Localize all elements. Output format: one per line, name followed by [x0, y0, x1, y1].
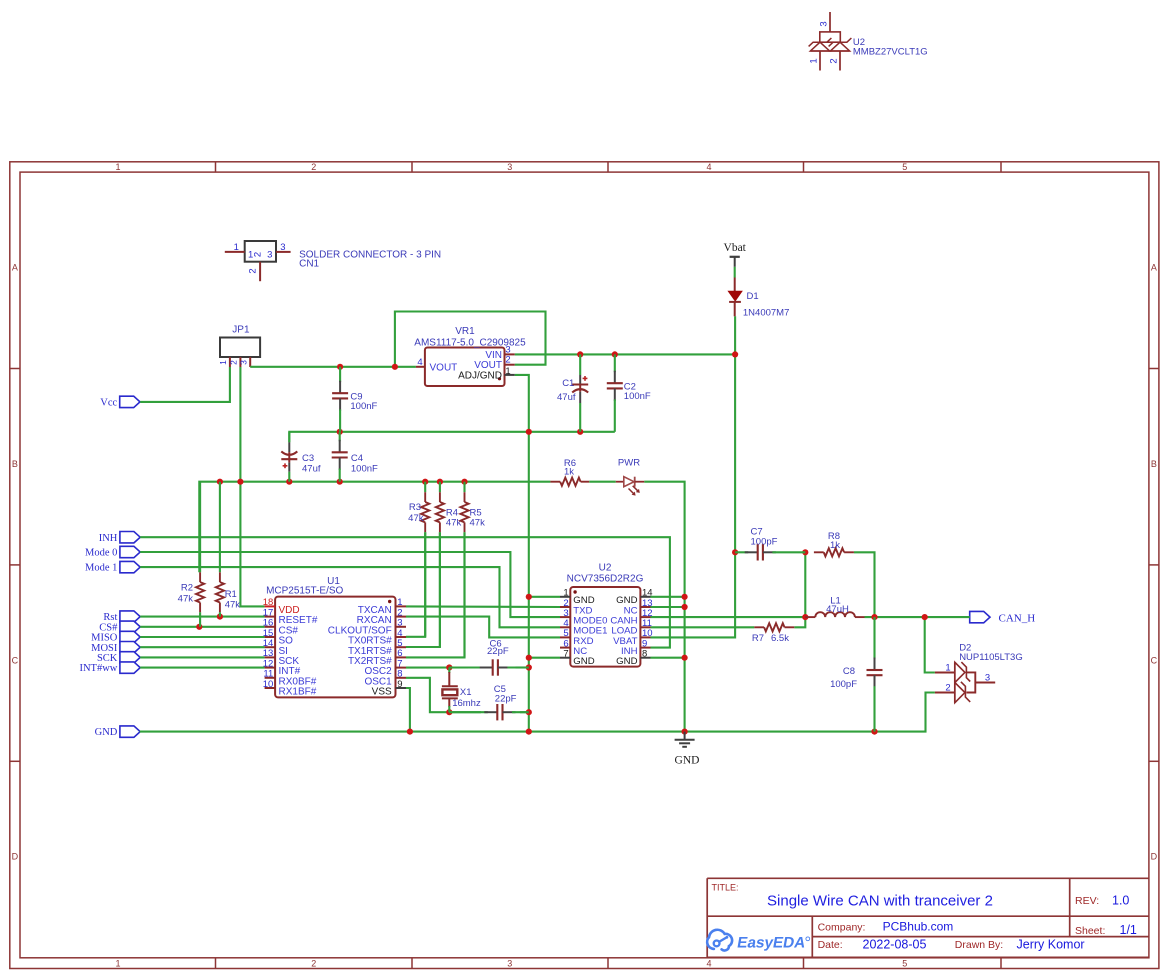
svg-text:3: 3: [507, 959, 512, 969]
label PWR: [618, 457, 640, 468]
pin number 3 (CN1 outside): [280, 242, 285, 253]
wire U2 pin14 to GND vertical: [651, 596, 685, 598]
pin number 13 (U1 left): [263, 648, 274, 659]
wire TXCAN to U2 TXD: [406, 605, 560, 608]
capacitor C3 symbol (polarized): [281, 432, 297, 482]
pin number 11 (U2 right): [642, 618, 652, 629]
label C6: [490, 639, 502, 650]
svg-text:47uH: 47uH: [826, 604, 849, 615]
junction VSS on GND rail: [407, 729, 413, 735]
label 47k (R2): [178, 594, 194, 605]
pin name RXCAN (U1): [357, 615, 392, 626]
svg-text:REV:: REV:: [1075, 895, 1099, 907]
TVS diode D2 symbol: [935, 662, 995, 703]
svg-text:100nF: 100nF: [351, 464, 378, 475]
pin name INT# (U1): [279, 666, 301, 677]
wire JP1 pin2 down to VDD rail and U1 pin18: [240, 367, 264, 606]
ground symbol GND: [675, 732, 695, 747]
pin number 3 (VR1): [505, 344, 510, 355]
label 16mhz (X1): [452, 698, 481, 709]
svg-text:Drawn By:: Drawn By:: [955, 939, 1003, 951]
pin name NC (U2 right): [624, 605, 638, 616]
wire VBAT vertical to U2 pin10: [651, 552, 736, 637]
svg-text:47k: 47k: [408, 513, 424, 524]
svg-text:3: 3: [819, 21, 830, 26]
svg-text:B: B: [12, 459, 18, 469]
pin name LOAD (U2 right): [611, 626, 637, 637]
port Mode 1: [85, 561, 140, 573]
svg-text:16mhz: 16mhz: [452, 698, 481, 709]
pin name OSC2 (U1): [364, 666, 392, 677]
crystal X1 symbol: [442, 668, 458, 713]
svg-text:GND: GND: [95, 727, 118, 738]
svg-text:4: 4: [417, 357, 422, 368]
svg-text:Company:: Company:: [818, 922, 866, 934]
pin name RXD (U2 left): [573, 636, 593, 647]
connector JP1 symbol: [220, 338, 260, 368]
pin number 12 (U2 right): [642, 608, 653, 619]
svg-text:Jerry Komor: Jerry Komor: [1017, 938, 1085, 952]
capacitor C8 symbol: [867, 617, 883, 732]
pin number 2 (U2 left): [563, 598, 568, 609]
wire MOSI to U1 SI: [140, 646, 264, 648]
svg-text:Vcc: Vcc: [100, 398, 117, 409]
wire VIN line: [515, 353, 735, 355]
svg-text:2: 2: [311, 959, 316, 969]
connector CN1 symbol: [225, 241, 291, 281]
svg-text:D: D: [1151, 852, 1158, 862]
wire C6 right to GND vertical: [515, 666, 528, 668]
svg-text:C1: C1: [562, 378, 574, 389]
label L1: [830, 595, 841, 606]
svg-text:GND: GND: [616, 656, 637, 667]
pin number 9 (U1 right): [397, 679, 402, 690]
resistor R7 symbol: [754, 623, 794, 631]
pin number 1 (U1 right): [397, 597, 402, 608]
junction L1 right C8 node: [871, 614, 877, 620]
svg-text:3: 3: [267, 250, 272, 261]
svg-text:VR1: VR1: [455, 326, 475, 337]
pin number 2 (VR1): [505, 355, 510, 366]
label D1: [747, 291, 759, 302]
junction VOUT loop on 5V line: [392, 364, 398, 370]
svg-text:47uf: 47uf: [302, 464, 321, 475]
wire U2 pin7 to GND vertical: [529, 657, 560, 659]
svg-text:Single Wire CAN with tranceive: Single Wire CAN with tranceiver 2: [767, 893, 993, 910]
junction GND vert C5 line: [526, 709, 532, 715]
label 1k (R8): [830, 540, 840, 551]
wire Vcc to JP1 pin1: [140, 367, 230, 402]
pin number 2 (D2): [945, 683, 950, 694]
title block grid lines: [707, 878, 1149, 958]
label 1k (R6): [564, 467, 574, 478]
label 22pF (C5): [495, 694, 517, 705]
wire INT#ww to U1 INT#: [140, 667, 264, 669]
svg-text:EasyEDA: EasyEDA: [736, 934, 807, 951]
svg-text:RX1BF#: RX1BF#: [279, 687, 317, 698]
label NCV7356D2R2G: [567, 574, 644, 585]
label 47uf (C3): [302, 464, 321, 475]
svg-text:2: 2: [253, 252, 264, 257]
capacitor C9 symbol: [332, 367, 348, 432]
label C5: [494, 684, 506, 695]
svg-text:C: C: [1151, 655, 1158, 665]
svg-text:PWR: PWR: [618, 457, 640, 468]
svg-text:CAN_H: CAN_H: [999, 612, 1036, 624]
capacitor C7 symbol: [735, 544, 805, 560]
junction C7 left on VBAT vertical: [732, 549, 738, 555]
wire R8 to L1 output: [854, 552, 875, 617]
label AMS1117-5.0_C2909825: [414, 338, 526, 349]
pin number 3 (U2 zener): [819, 21, 830, 26]
pin name TX1RTS# (U1): [348, 646, 392, 657]
label U2 (transceiver): [599, 563, 612, 574]
svg-text:9: 9: [397, 679, 402, 690]
port Vcc: [100, 396, 140, 408]
pin number 15 (U1 left): [263, 628, 274, 639]
junction GND vert2 U2 pin14: [682, 594, 688, 600]
pin name CANH (U2 right): [610, 616, 637, 627]
svg-text:4: 4: [706, 959, 711, 969]
wire GND rail y432: [289, 432, 615, 443]
svg-text:100pF: 100pF: [830, 679, 857, 690]
port Rst: [103, 611, 140, 623]
svg-text:D: D: [12, 852, 19, 862]
junction X1 bottom on C5 line: [446, 709, 452, 715]
pin number 2 (U2 zener): [829, 58, 840, 63]
pin number 5 (U2 left): [563, 628, 568, 639]
junction C3 bottom on VDD rail: [286, 479, 292, 485]
wire LED cathode to GND vertical: [644, 482, 684, 732]
label 47k (R5): [470, 517, 486, 528]
svg-text:3: 3: [507, 162, 512, 172]
resistor R8 symbol: [814, 548, 854, 556]
pin number 9 (U2 right): [642, 638, 647, 649]
svg-text:TITLE:: TITLE:: [712, 883, 739, 893]
wire INH line: [140, 537, 670, 647]
svg-text:Vbat: Vbat: [724, 242, 747, 254]
label C8: [843, 666, 855, 677]
pin number 4 (VR1): [417, 357, 422, 368]
pin name TX0RTS# (U1): [348, 636, 392, 647]
svg-text:D1: D1: [747, 291, 759, 302]
wire SCK to U1 SCK: [140, 656, 264, 658]
pin number 1 (VR1): [505, 366, 510, 377]
pin number 10 (U1 left): [263, 679, 274, 690]
svg-text:22pF: 22pF: [495, 694, 517, 705]
pin number 3 (CN1 inside): [267, 250, 272, 261]
pin number 1 (U2 left): [563, 588, 568, 599]
label R5: [470, 508, 482, 519]
wire U2 pin11 LOAD to R7: [651, 626, 755, 628]
junction GND vert2 U2 pin13: [682, 604, 688, 610]
wire CS# to U1 CS#: [140, 626, 264, 628]
pin name RX1BF# (U1): [279, 687, 317, 698]
wire GND vertical x529 (ADJ to GND rail): [515, 375, 529, 732]
pin number 14 (U1 left): [263, 638, 274, 649]
pin number 2 (CN1 inside): [253, 252, 264, 257]
wire TX0RTS# to R3: [406, 532, 425, 637]
wire RXCAN to U2 RXD: [406, 617, 560, 638]
junction R3 top on VDD rail: [422, 479, 428, 485]
svg-text:NUP1105LT3G: NUP1105LT3G: [959, 652, 1023, 663]
IC U1 MCP2515T-E/SO box and pins: [265, 597, 406, 698]
capacitor C6 symbol: [449, 659, 529, 675]
EasyEDA logo: [707, 930, 810, 952]
pin name MODE1 (U2 left): [573, 626, 607, 637]
pin name VOUT (VR1 left): [430, 362, 458, 373]
junction C7/R8 node: [802, 549, 808, 555]
wire VDD rail y482: [199, 482, 550, 573]
label R3: [409, 502, 421, 513]
pin name GND (U2 left): [573, 595, 594, 606]
svg-text:A: A: [12, 263, 18, 273]
label 100nF (C9): [350, 401, 377, 412]
pin name CS# (U1): [279, 625, 299, 636]
svg-text:Sheet:: Sheet:: [1075, 925, 1105, 937]
pin number 3 (U2 left): [563, 608, 568, 619]
svg-text:1.0: 1.0: [1112, 894, 1129, 908]
svg-text:100nF: 100nF: [624, 391, 651, 402]
svg-text:PCBhub.com: PCBhub.com: [883, 920, 954, 934]
pin number 3 (D2): [985, 673, 990, 684]
wire Mode 0 line: [140, 552, 560, 617]
svg-text:4: 4: [706, 162, 711, 172]
svg-text:2022-08-05: 2022-08-05: [863, 938, 927, 952]
pin number 2 (U1 right): [397, 607, 402, 618]
Sheet label: [1075, 925, 1105, 937]
svg-text:1: 1: [809, 58, 820, 63]
Company value PCBhub.com: [883, 920, 954, 934]
label 6.5k (R7): [771, 633, 789, 644]
port CAN_H: [970, 611, 1036, 624]
capacitor C5 symbol: [449, 704, 529, 720]
svg-text:5: 5: [902, 162, 907, 172]
title block TITLE label: [712, 883, 739, 893]
port MOSI: [91, 642, 140, 654]
wire OSC1 jog to C5 line: [406, 678, 481, 712]
label C9: [350, 392, 362, 403]
wire U2 pin1 to GND vertical: [529, 596, 560, 598]
svg-text:GND: GND: [675, 755, 700, 767]
label C7: [751, 527, 763, 538]
port GND (left): [95, 726, 141, 738]
pin number 3 (JP1): [238, 360, 248, 365]
svg-text:CN1: CN1: [299, 259, 319, 270]
svg-text:2: 2: [829, 58, 840, 63]
junction GND vert2 U2 pin8: [682, 655, 688, 661]
wire D1 cathode down to C7 node: [734, 316, 736, 552]
svg-text:Date:: Date:: [818, 939, 843, 951]
svg-text:MCP2515T-E/SO: MCP2515T-E/SO: [266, 586, 343, 597]
junction C8 bottom on GND rail: [871, 729, 877, 735]
pin name RESET# (U1): [279, 615, 318, 626]
Company label: [818, 922, 866, 934]
dual zener diode U2 MMBZ27VCLT1G symbol: [809, 12, 852, 71]
svg-text:100nF: 100nF: [350, 401, 377, 412]
junction R5 top on VDD rail: [461, 479, 467, 485]
pin name OSC1 (U1): [364, 676, 392, 687]
label JP1: [232, 325, 250, 336]
junction R2 bottom on CS# line: [196, 624, 202, 630]
label 47k (R1): [225, 600, 241, 611]
svg-text:10: 10: [263, 679, 274, 690]
svg-text:1: 1: [945, 663, 950, 674]
label 47k (R3): [408, 513, 424, 524]
junction D1 node on VIN line: [732, 351, 738, 357]
svg-text:R2: R2: [181, 583, 193, 594]
pin name SO (U1): [279, 636, 294, 647]
label 100pF (C8): [830, 679, 857, 690]
pin number 12 (U1 left): [263, 658, 274, 669]
svg-text:SOLDER CONNECTOR - 3 PIN: SOLDER CONNECTOR - 3 PIN: [299, 250, 441, 261]
label MCP2515T-E/SO: [266, 586, 343, 597]
wire OSC2 to C6 line: [406, 666, 475, 668]
pin number 1 (D2): [945, 663, 950, 674]
pin name VOUT (VR1 right): [474, 360, 502, 371]
junction C1 bottom on GND rail y432: [577, 429, 583, 435]
svg-text:1: 1: [505, 366, 510, 377]
svg-text:47k: 47k: [446, 517, 462, 528]
pin number 7 (U2 left): [563, 649, 568, 660]
voltage regulator VR1 symbol: [416, 348, 515, 387]
pin name CLKOUT/SOF (U1): [328, 625, 392, 636]
diode D1 symbol: [728, 278, 742, 317]
svg-text:INH: INH: [99, 533, 118, 544]
junction GND vert C6 line: [526, 664, 532, 670]
label MMBZ27VCLT1G: [853, 47, 928, 58]
label C3: [302, 453, 314, 464]
pin name TXCAN (U1): [358, 605, 392, 616]
junction GND vert U2 pin7: [526, 655, 532, 661]
power symbol Vbat: [730, 257, 740, 267]
pin name GND (U2 right): [616, 656, 637, 667]
label 47k (R4): [446, 517, 462, 528]
label NUP1105LT3G: [959, 652, 1023, 663]
pin number 8 (U2 right): [642, 649, 647, 660]
label VR1: [455, 326, 475, 337]
pin name VBAT (U2 right): [613, 636, 637, 647]
svg-text:47k: 47k: [470, 517, 486, 528]
junction GND vert on GND rail: [526, 729, 532, 735]
label U2 (zener): [853, 37, 865, 48]
label R2: [181, 583, 193, 594]
svg-text:5: 5: [902, 959, 907, 969]
wire Mode 1 line: [140, 567, 560, 627]
svg-text:R1: R1: [225, 589, 237, 600]
svg-text:2: 2: [505, 355, 510, 366]
port INH: [99, 532, 140, 544]
label 22pF (C6): [487, 646, 509, 657]
capacitor C4 symbol: [332, 432, 348, 482]
wire Rst to U1 RESET#: [140, 616, 264, 618]
junction C9 top on 5V line: [337, 364, 343, 370]
svg-text:47k: 47k: [225, 600, 241, 611]
port MISO: [91, 631, 140, 643]
pin number 6 (U2 left): [563, 638, 568, 649]
svg-text:JP1: JP1: [232, 325, 250, 336]
svg-text:VOUT: VOUT: [430, 362, 458, 373]
svg-text:1: 1: [115, 162, 120, 172]
label CN1: [299, 259, 319, 270]
Drawn By label: [955, 939, 1003, 951]
label R7: [752, 633, 764, 644]
svg-text:R3: R3: [409, 502, 421, 513]
pin number 4 (U1 right): [397, 628, 402, 639]
svg-text:Mode 0: Mode 0: [85, 548, 117, 559]
pin number 7 (U1 right): [397, 658, 402, 669]
pin number 18 (U1 left): [263, 597, 274, 608]
Sheet value 1/1: [1120, 923, 1137, 937]
svg-text:1N4007M7: 1N4007M7: [743, 307, 789, 318]
svg-text:22pF: 22pF: [487, 646, 509, 657]
svg-text:100pF: 100pF: [751, 537, 778, 548]
resistor R1 symbol: [216, 482, 224, 617]
pin name VDD (U1): [279, 605, 300, 616]
junction GND vert U2 pin1: [526, 594, 532, 600]
resistor R5 symbol: [460, 482, 468, 658]
wire VSS to GND rail: [406, 688, 410, 732]
resistor R4 symbol: [436, 482, 444, 647]
svg-text:Mode 1: Mode 1: [85, 563, 117, 574]
label Vbat: [724, 242, 747, 254]
label 47uf (C1): [557, 392, 576, 403]
pin name ADJ/GND (VR1): [458, 371, 502, 382]
junction R4 top on VDD rail: [437, 479, 443, 485]
svg-text:2: 2: [311, 162, 316, 172]
svg-text:B: B: [1151, 459, 1157, 469]
label 47uH (L1): [826, 604, 849, 615]
wire 5V output line JP1 pin3 to VR1 VOUT: [250, 366, 416, 368]
svg-text:A: A: [1151, 263, 1157, 273]
svg-text:3: 3: [280, 242, 285, 253]
svg-text:MMBZ27VCLT1G: MMBZ27VCLT1G: [853, 47, 928, 58]
pin number 3 (U1 right): [397, 618, 402, 629]
junction GND vert2 on GND rail: [682, 729, 688, 735]
port Mode 0: [85, 546, 140, 558]
wire VOUT loop over VR1: [395, 312, 546, 367]
pin name SCK (U1): [279, 656, 300, 667]
pin number 8 (U1 right): [397, 669, 402, 680]
label C1: [562, 378, 574, 389]
Date value 2022-08-05: [863, 938, 927, 952]
pin number 13 (U2 right): [642, 598, 653, 609]
pin name TX2RTS# (U1): [348, 656, 392, 667]
pin name NC (U2 left): [573, 646, 587, 657]
pin number 10 (U2 right): [642, 628, 653, 639]
pin number 1 (CN1 inside): [248, 250, 253, 261]
pin number 17 (U1 left): [263, 607, 274, 618]
label X1: [460, 687, 472, 698]
wire CANH line U2 pin12 to L1: [651, 616, 806, 618]
label C4: [351, 453, 363, 464]
svg-text:2: 2: [248, 268, 259, 273]
wire U2 pin13 to GND vertical: [651, 606, 685, 608]
label U1: [327, 576, 340, 587]
svg-text:C3: C3: [302, 453, 314, 464]
pin name SI (U1): [279, 646, 288, 657]
pin name VIN (VR1): [485, 350, 502, 361]
resistor R6 symbol: [550, 478, 589, 486]
Drawn By value Jerry Komor: [1017, 938, 1085, 952]
label SOLDER CONNECTOR - 3 PIN: [299, 250, 441, 261]
wire TX1RTS# to R4: [406, 532, 440, 647]
svg-text:NCV7356D2R2G: NCV7356D2R2G: [567, 574, 644, 585]
junction CAN_H branch: [922, 614, 928, 620]
junction C1 on VIN line: [577, 351, 583, 357]
svg-text:INT#ww: INT#ww: [79, 663, 117, 674]
pin number 11 (U1 left): [263, 669, 273, 680]
